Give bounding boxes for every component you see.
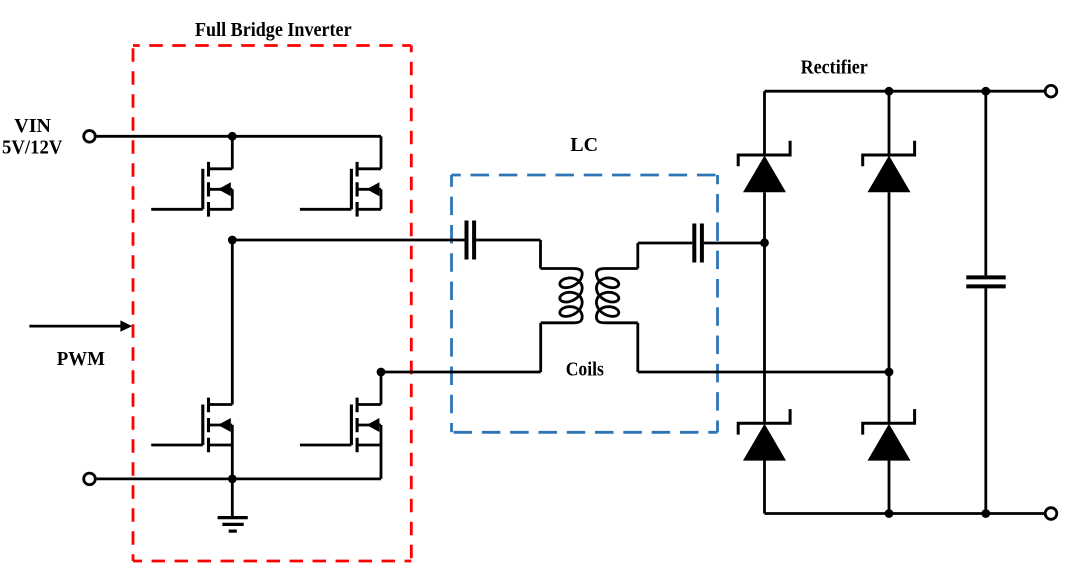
node right leg midpoint junction xyxy=(377,368,386,377)
wire bridge left midpoint to LC xyxy=(232,239,540,242)
terminal VIN+ xyxy=(84,131,96,143)
transistor Q3 xyxy=(151,398,232,453)
svg-text:VIN: VIN xyxy=(14,115,51,137)
capacitor C1 xyxy=(467,221,475,260)
inductor L1 primary coil xyxy=(541,269,583,323)
terminal VOUT- xyxy=(1045,508,1057,520)
diode D4 xyxy=(863,409,915,461)
terminal VOUT+ xyxy=(1045,85,1057,97)
wire rectifier bottom rail xyxy=(765,512,1046,515)
wire rectifier top rail xyxy=(765,90,1046,93)
diode D3 xyxy=(738,409,790,461)
node rectifier top rail col2 junction xyxy=(885,87,894,96)
wire LC to rectifier bottom xyxy=(638,371,889,374)
node bottom rail / ground junction xyxy=(228,475,237,484)
svg-text:5V/12V: 5V/12V xyxy=(2,137,63,159)
inductor L2 secondary coil xyxy=(596,269,637,323)
LC dashed box xyxy=(452,175,718,432)
wire bottom rail xyxy=(97,477,381,480)
wire rectifier column 2 xyxy=(888,91,891,513)
wire rectifier column 1 xyxy=(763,91,766,513)
svg-text:LC: LC xyxy=(570,134,598,156)
svg-text:Rectifier: Rectifier xyxy=(801,57,868,79)
terminal VIN- xyxy=(84,473,96,485)
capacitor C2 xyxy=(694,224,702,263)
node rectifier AC2 junction xyxy=(885,368,894,377)
node rectifier bottom rail cap junction xyxy=(981,509,990,518)
transistor Q4 xyxy=(300,398,381,453)
svg-text:Coils: Coils xyxy=(566,359,604,381)
transistor Q1 xyxy=(151,162,232,217)
node rectifier top rail cap junction xyxy=(981,87,990,96)
wire output capacitor column xyxy=(984,91,987,513)
diode D2 xyxy=(863,141,915,193)
capacitor C3 output xyxy=(966,277,1005,286)
wire LC top right riser xyxy=(636,243,639,269)
svg-text:Full Bridge Inverter: Full Bridge Inverter xyxy=(195,19,352,41)
full bridge inverter dashed box xyxy=(133,46,411,562)
node left leg midpoint junction xyxy=(228,236,237,245)
wire right leg xyxy=(380,136,383,479)
wire LC bottom left riser xyxy=(539,323,542,372)
diode D1 xyxy=(738,141,790,193)
node rectifier bottom rail col2 junction xyxy=(885,509,894,518)
wire LC bottom right riser xyxy=(636,323,639,372)
wire left leg source to bottom rail xyxy=(231,445,234,479)
node top rail / left leg junction xyxy=(228,132,237,141)
wire bridge right midpoint to LC xyxy=(381,371,541,374)
wire LC top left riser xyxy=(539,240,542,269)
ground xyxy=(218,479,248,531)
wire left leg xyxy=(231,136,234,404)
wire top rail VIN to right leg xyxy=(97,135,381,138)
PWM input arrow xyxy=(29,320,132,331)
wire LC to rectifier top xyxy=(638,242,765,245)
node rectifier AC1 junction xyxy=(760,238,769,247)
svg-text:PWM: PWM xyxy=(57,348,105,370)
transistor Q2 xyxy=(300,162,381,217)
